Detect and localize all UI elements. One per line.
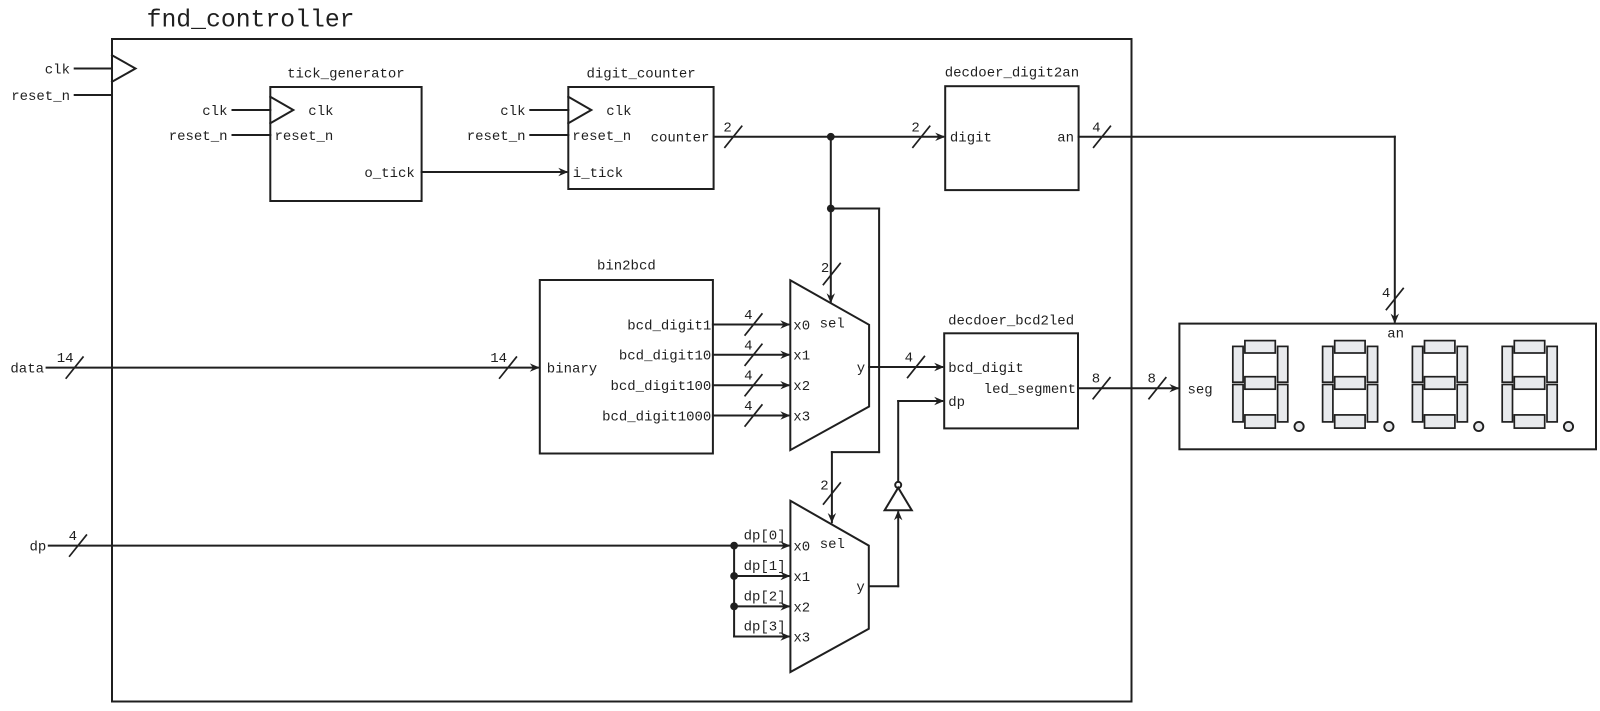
svg-text:2: 2 bbox=[820, 479, 828, 495]
svg-text:reset_n: reset_n bbox=[169, 129, 228, 145]
wire o_tick to i_tick bbox=[422, 168, 569, 176]
wire dp[0] to mux M2 x0 bbox=[744, 529, 786, 545]
svg-text:reset_n: reset_n bbox=[11, 89, 70, 105]
wire bcd_digit10 (4) to mux M1 x1 bbox=[713, 338, 790, 365]
svg-text:4: 4 bbox=[1092, 120, 1100, 136]
wire dp[2] to mux M2 x2 bbox=[734, 589, 790, 610]
junction node dp[2] bbox=[730, 603, 738, 611]
svg-text:dp[3]: dp[3] bbox=[744, 620, 786, 636]
svg-text:8: 8 bbox=[1092, 372, 1100, 388]
svg-text:an: an bbox=[1057, 131, 1074, 147]
svg-text:bcd_digit: bcd_digit bbox=[948, 361, 1024, 377]
svg-text:decdoer_digit2an: decdoer_digit2an bbox=[945, 66, 1079, 82]
pin clk of digit_counter bbox=[500, 97, 631, 123]
wire dp fanout vertical bbox=[733, 546, 735, 637]
svg-text:clk: clk bbox=[45, 62, 70, 78]
pin reset_n of digit_counter bbox=[467, 129, 631, 145]
wire sel branch (2) to mux M2 bbox=[820, 209, 879, 524]
svg-text:bin2bcd: bin2bcd bbox=[597, 259, 656, 275]
svg-text:digit: digit bbox=[950, 131, 992, 147]
svg-text:2: 2 bbox=[723, 120, 731, 136]
svg-text:4: 4 bbox=[744, 369, 752, 385]
svg-text:y: y bbox=[857, 361, 865, 377]
svg-text:dp[2]: dp[2] bbox=[744, 589, 786, 605]
wire dp[1] to mux M2 x1 bbox=[734, 559, 790, 580]
block U1 tick_generator bbox=[270, 67, 421, 201]
mux M1 (bcd digit select) bbox=[790, 280, 869, 450]
svg-text:x1: x1 bbox=[793, 349, 810, 365]
svg-text:reset_n: reset_n bbox=[275, 129, 334, 145]
pin clk of tick_generator bbox=[202, 97, 333, 123]
7-segment digit 4 bbox=[1502, 341, 1573, 432]
wire inverter output to dp pin bbox=[898, 397, 944, 482]
svg-text:reset_n: reset_n bbox=[467, 129, 526, 145]
7-segment digit 1 bbox=[1233, 341, 1304, 432]
mux M2 (dp select) bbox=[790, 501, 868, 672]
svg-text:fnd_controller: fnd_controller bbox=[147, 7, 355, 35]
junction node counter/sel bbox=[827, 133, 835, 141]
svg-text:decdoer_bcd2led: decdoer_bcd2led bbox=[948, 313, 1074, 329]
svg-text:4: 4 bbox=[744, 308, 752, 324]
svg-text:an: an bbox=[1387, 326, 1404, 342]
svg-text:8: 8 bbox=[1147, 372, 1155, 388]
7-segment digit 3 bbox=[1412, 341, 1483, 432]
wire y mux M2 to inverter input bbox=[869, 510, 903, 586]
svg-text:14: 14 bbox=[490, 351, 507, 367]
port clk (module input) bbox=[45, 55, 136, 82]
wire bcd_digit100 (4) to mux M1 x2 bbox=[713, 369, 790, 396]
svg-text:clk: clk bbox=[308, 104, 333, 120]
wire an bus (4) decdoer_digit2an to display bbox=[1079, 120, 1404, 323]
svg-text:binary: binary bbox=[547, 362, 597, 378]
wire dp[3] to mux M2 x3 bbox=[734, 620, 790, 641]
svg-text:seg: seg bbox=[1188, 382, 1213, 398]
svg-text:4: 4 bbox=[905, 351, 913, 367]
svg-text:o_tick: o_tick bbox=[364, 166, 414, 182]
svg-text:4: 4 bbox=[744, 399, 752, 415]
wire bcd_digit1000 (4) to mux M1 x3 bbox=[713, 399, 790, 426]
port data (module input, 14) bbox=[10, 351, 539, 378]
wire led_segment bus (8) to display seg bbox=[1078, 372, 1179, 399]
svg-text:clk: clk bbox=[606, 104, 631, 120]
svg-text:clk: clk bbox=[202, 104, 227, 120]
svg-text:digit_counter: digit_counter bbox=[586, 67, 695, 83]
svg-text:dp[0]: dp[0] bbox=[744, 529, 786, 545]
svg-text:y: y bbox=[856, 580, 864, 596]
svg-text:x3: x3 bbox=[793, 409, 810, 425]
svg-text:4: 4 bbox=[1382, 286, 1390, 302]
svg-text:x3: x3 bbox=[793, 630, 810, 646]
svg-text:4: 4 bbox=[744, 338, 752, 354]
module fnd_controller boundary bbox=[112, 39, 1132, 702]
wire y (4) mux M1 to decdoer_bcd2led bcd_digit bbox=[869, 351, 944, 378]
svg-text:reset_n: reset_n bbox=[572, 129, 631, 145]
wire bcd_digit1 (4) to mux M1 x0 bbox=[713, 308, 790, 335]
svg-text:data: data bbox=[10, 362, 44, 378]
block U2 digit_counter bbox=[568, 67, 713, 189]
junction node sel branch bbox=[827, 205, 835, 213]
svg-text:14: 14 bbox=[57, 351, 74, 367]
svg-text:led_segment: led_segment bbox=[984, 382, 1076, 398]
svg-text:dp: dp bbox=[948, 395, 965, 411]
svg-text:2: 2 bbox=[911, 120, 919, 136]
svg-text:x2: x2 bbox=[793, 379, 810, 395]
svg-text:x0: x0 bbox=[793, 540, 810, 556]
junction node dp[1] bbox=[730, 572, 738, 580]
7-segment digit 2 bbox=[1323, 341, 1394, 432]
svg-text:sel: sel bbox=[820, 537, 845, 553]
svg-text:x2: x2 bbox=[793, 600, 810, 616]
pin reset_n of tick_generator bbox=[169, 129, 334, 145]
svg-text:bcd_digit1000: bcd_digit1000 bbox=[602, 409, 711, 425]
svg-text:x1: x1 bbox=[793, 570, 810, 586]
wire counter bus (2) digit_counter to decdoer_digit2an bbox=[714, 120, 945, 147]
svg-text:4: 4 bbox=[69, 529, 77, 545]
port dp (module input, 4) bbox=[29, 529, 790, 556]
block U5 decdoer_bcd2led bbox=[944, 313, 1078, 428]
block U4 bin2bcd bbox=[540, 259, 713, 454]
svg-text:bcd_digit1: bcd_digit1 bbox=[627, 318, 711, 334]
svg-text:clk: clk bbox=[500, 104, 525, 120]
svg-text:bcd_digit100: bcd_digit100 bbox=[610, 379, 711, 395]
inverter U6 (dp active-low) bbox=[885, 482, 912, 510]
svg-text:dp[1]: dp[1] bbox=[744, 559, 786, 575]
svg-text:2: 2 bbox=[821, 261, 829, 277]
svg-text:tick_generator: tick_generator bbox=[287, 67, 405, 83]
port reset_n (module input) bbox=[11, 89, 112, 105]
svg-text:counter: counter bbox=[651, 131, 710, 147]
block U3 decdoer_digit2an bbox=[945, 66, 1079, 191]
display FND (4-digit 7-segment) bbox=[1179, 324, 1596, 450]
svg-text:x0: x0 bbox=[793, 318, 810, 334]
svg-text:sel: sel bbox=[820, 316, 845, 332]
svg-text:bcd_digit10: bcd_digit10 bbox=[619, 349, 711, 365]
svg-text:dp: dp bbox=[29, 540, 46, 556]
junction node dp[0] bbox=[730, 542, 738, 550]
wire sel (2) counter junction to mux M1 bbox=[821, 137, 840, 303]
svg-text:i_tick: i_tick bbox=[573, 166, 623, 182]
